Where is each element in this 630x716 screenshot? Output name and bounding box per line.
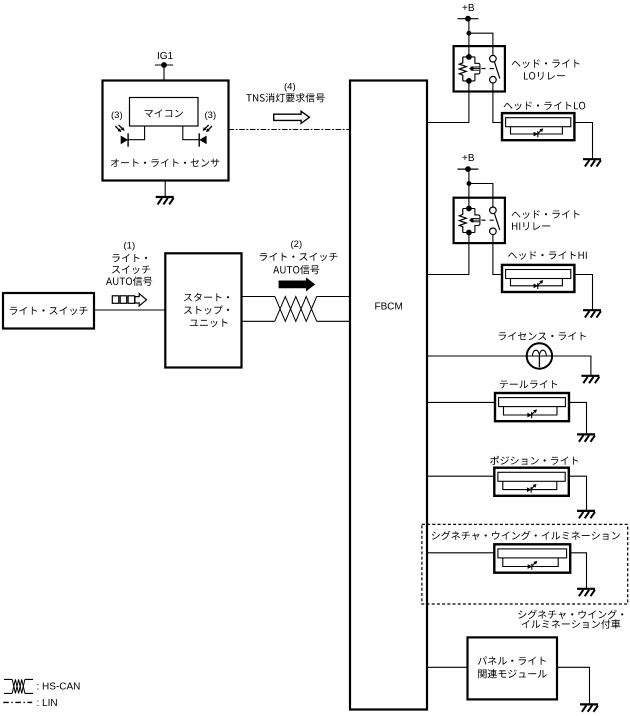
lamp signature wing illumination [494,544,570,572]
wire light switch to start stop unit [94,309,165,311]
lamp tail light [495,393,569,421]
svg-text:+B: +B [462,153,475,164]
ground (position light) [577,511,595,518]
photodiode D1 left [115,125,128,147]
label スイッチ [112,265,150,274]
photodiode D2 right [199,125,212,147]
light switch box ライト・スイッチ [3,293,94,329]
legend label : HS-CAN [37,681,81,692]
junction node (HI) [467,181,472,186]
ground (signature lamp) [577,589,595,596]
label LOリレー [524,72,565,80]
IG1 terminal [155,63,173,68]
+B supply (HI) [457,153,478,171]
label イルミネーション付車 [522,619,621,628]
label ヘッド・ライト (LO relay) [512,59,580,68]
legend HS-CAN symbol [4,679,33,693]
svg-text:: HS-CAN: : HS-CAN [37,681,81,692]
label シグネチャ・ウイング・イルミネーション [432,531,620,540]
wire junction to LO relay switch [469,33,493,46]
FBCM module box [350,81,427,710]
LIN wire (dash-dot) sensor to FBCM [229,129,351,131]
label ヘッド・ライトLO [504,102,586,111]
CAN direction arrow (solid) [279,277,316,291]
microcomputer box マイコン [130,98,199,127]
wire LO coil to FBCM [427,92,469,123]
junction node (LO) [467,31,472,36]
wire signature lamp to ground [570,553,586,589]
ground (panel module) [580,704,598,711]
panel light module box パネル・ライト関連モジュール [468,637,558,699]
start stop unit box スタート・ストップ・ユニット [165,253,241,367]
wire sensor to ground [164,181,166,198]
wire +B to LO relay [468,19,470,46]
sensor label オート・ライト・センサ [111,159,219,167]
wire junction to HI relay switch [469,184,493,198]
svg-text:+B: +B [462,3,475,14]
relay K2 head light HI relay [454,198,505,243]
wire position light to ground [569,476,587,511]
HS-CAN twisted pair wire to FBCM [242,297,351,322]
label (3) left [111,110,123,121]
legend label : LIN [37,698,58,709]
wire panel module to ground [557,667,590,704]
ground (LO lamp) [583,159,601,166]
svg-text:(2): (2) [291,239,303,250]
label (4) [284,82,296,93]
wire FBCM to position light [427,475,494,477]
svg-text:(3): (3) [111,110,123,121]
label HIリレー [512,222,550,230]
wire +B to HI relay [468,169,470,198]
label ポジション・ライト [490,456,578,465]
wire HI switch to lamp [493,243,502,274]
svg-text:(1): (1) [124,240,136,251]
ground (sensor) [156,197,174,204]
dashed option box [422,524,628,604]
wire FBCM to tail light [427,401,495,403]
serial-data symbol (squares + hollow arrow) [112,294,146,306]
wire IG1 to sensor [163,65,165,81]
label シグネチャ・ウイング・ (note) [518,610,623,619]
wire tail light to ground [569,402,587,434]
lamp head light LO [502,113,574,140]
IG1 label [157,51,174,62]
label (2) [291,239,303,250]
wire LO lamp to ground [574,123,592,160]
label (3) right [205,110,217,121]
wire HI lamp to ground [574,275,592,311]
wire LO switch to lamp [493,92,502,123]
lamp head light HI [502,265,574,292]
label ライト・ [112,254,147,262]
TNS request arrow (hollow) [274,111,310,123]
label AUTO信号 [106,277,152,286]
svg-text:IG1: IG1 [157,51,174,62]
label ライセンス・ライト [499,332,586,340]
legend LIN symbol (dash-dot) [3,701,32,703]
relay K1 head light LO relay [454,46,505,91]
lamp license light (round bulb) [527,343,552,368]
svg-text:: LIN: : LIN [37,698,58,709]
svg-text:(4): (4) [284,82,296,93]
label ヘッド・ライトHI [508,251,587,260]
wire FBCM to panel light module [427,666,468,668]
svg-text:(3): (3) [205,110,217,121]
wire HI coil to FBCM [427,243,469,274]
label ヘッド・ライト (HI relay) [512,210,580,219]
svg-text:FBCM: FBCM [375,302,403,313]
label ライト・スイッチ (2) [260,253,338,262]
label AUTO信号 (2) [273,265,319,274]
ground (tail light) [577,434,595,441]
label テールライト [500,380,558,388]
FBCM label [375,302,403,313]
lamp position light [494,468,569,496]
label (1) [124,240,136,251]
wire FBCM to signature lamp [427,552,494,554]
ground (HI lamp) [583,310,601,317]
wire license light to ground [552,356,591,376]
label TNS消灯要求信号 [246,93,324,102]
+B supply (LO) [457,3,478,21]
auto light sensor box [103,81,229,181]
wire D1 to micom [128,126,145,140]
wire D2 to micom [183,126,199,140]
wire FBCM to license light [427,355,527,357]
ground (license light) [581,376,599,383]
